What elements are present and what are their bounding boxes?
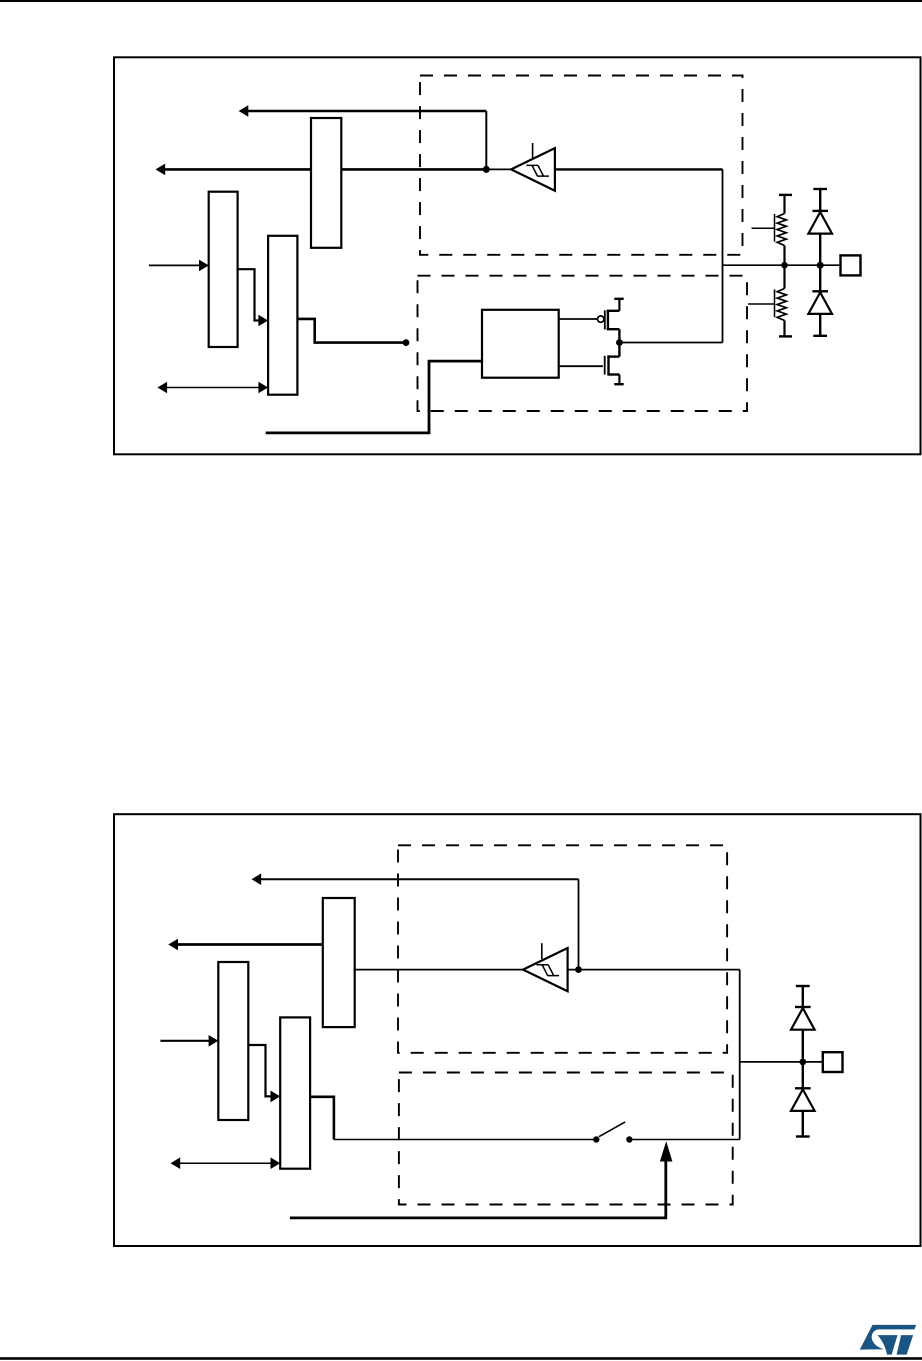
wire: pull-down control xyxy=(748,303,775,305)
wire: pad node vertical (fig2) xyxy=(739,970,741,1140)
ground VSS tick (N-MOS source) xyxy=(614,383,623,385)
wire: R6 output to switch xyxy=(310,1097,334,1140)
node: MOS drain output xyxy=(616,339,623,346)
dashed box: output section (fig2) xyxy=(399,1073,733,1205)
node: schmitt output junction xyxy=(483,166,490,173)
ST logo xyxy=(860,1325,916,1355)
register box R6 xyxy=(280,1017,310,1168)
wire: top feedback line with left arrow (fig2) xyxy=(252,873,579,969)
node: feedback junction (fig2) xyxy=(575,966,582,973)
wire: pad node vertical xyxy=(722,169,724,342)
wire: switch feed line xyxy=(334,1139,596,1141)
diode D3 (to VDD) xyxy=(791,986,815,1059)
pad pin square xyxy=(841,255,861,275)
transistor Q1 (P-MOS) xyxy=(559,299,620,343)
diode D4 (to VSS) xyxy=(791,1062,815,1137)
wire: second left arrow from register R1 xyxy=(156,164,487,176)
wire: pull-up control xyxy=(752,227,775,229)
wire: output enable into output control xyxy=(266,361,482,433)
wire: R3 output to stub node xyxy=(297,319,406,343)
wire: switch to pad node xyxy=(629,1139,739,1141)
wire: schmitt input from pad node xyxy=(555,168,723,170)
header rule xyxy=(0,0,922,2)
ground VSS tick (pull-down) xyxy=(779,335,792,337)
register box R3 xyxy=(268,236,297,395)
schmitt trigger U3 xyxy=(523,943,568,991)
register box R4 xyxy=(323,898,355,1027)
diode D1 (to VDD) xyxy=(808,189,832,262)
pad pin square (fig2) xyxy=(823,1052,843,1072)
switch SW1 xyxy=(593,1122,633,1143)
wire: top feedback line with left arrow xyxy=(239,105,487,169)
node: stub terminal xyxy=(403,339,410,346)
output control block U2 xyxy=(482,310,559,378)
wire: schmitt output to junction xyxy=(486,168,511,170)
dashed box: input section xyxy=(420,76,743,255)
wire: schmitt output to register R4 xyxy=(355,969,523,971)
transistor Q2 (N-MOS) xyxy=(559,343,620,385)
diode D2 (to VSS) xyxy=(808,265,832,336)
dashed box: output section xyxy=(418,276,748,411)
dashed box: input section (fig2) xyxy=(398,845,727,1053)
register box R5 xyxy=(218,962,248,1120)
node: pull-up junction xyxy=(781,262,788,269)
wire: schmitt input from pad node (fig2) xyxy=(568,969,740,971)
wire: link R2 to R3 xyxy=(238,269,269,326)
resistor RPU (pull-up) xyxy=(775,195,787,262)
power VDD tick (protection diode D3) xyxy=(796,985,810,987)
wire: input arrow into register R2 xyxy=(149,260,209,272)
wire: drain output to pad column xyxy=(619,342,722,344)
wire: link R5 to R6 xyxy=(248,1045,280,1102)
power VDD tick (P-MOS source) xyxy=(614,298,623,300)
wire: second left arrow from register R4 xyxy=(168,939,322,951)
node: diode junction on pad line xyxy=(817,262,824,269)
power VDD tick (protection diode D1) xyxy=(813,188,827,190)
wire: bidirectional data bus arrow xyxy=(157,382,268,394)
ground VSS tick (protection diode D4) xyxy=(796,1135,810,1137)
wire: input arrow into register R5 xyxy=(160,1035,218,1047)
schmitt trigger U1 xyxy=(511,143,555,191)
wire: bidirectional data bus arrow (fig2) xyxy=(171,1157,281,1169)
node: diode junction on pad line (fig2) xyxy=(799,1059,806,1066)
wire: pad horizontal line xyxy=(723,264,841,266)
wire: pad horizontal line (fig2) xyxy=(740,1061,823,1063)
ground VSS tick (protection diode D2) xyxy=(813,335,827,337)
power VDD tick (pull-up) xyxy=(779,194,792,196)
register box R2 xyxy=(209,192,238,347)
footer rule xyxy=(0,1357,922,1360)
wire: switch control with up arrow xyxy=(290,1141,673,1218)
register box R1 xyxy=(311,118,341,248)
resistor RPD (pull-down) xyxy=(775,265,787,336)
